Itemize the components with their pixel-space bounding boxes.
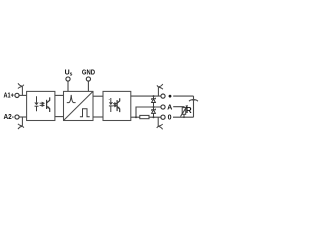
pin Us to converter bbox=[67, 81, 69, 91]
wire converter to output box (top) bbox=[93, 95, 103, 97]
stub load resistor to bottom wire bbox=[183, 114, 185, 117]
wire resistor to 0 terminal bbox=[149, 116, 161, 118]
arrow through load resistor bbox=[181, 106, 188, 117]
LED D2 bbox=[109, 98, 113, 112]
terminal A bbox=[161, 105, 165, 109]
terminal plus bbox=[161, 94, 165, 98]
wire A to load resistor bbox=[173, 106, 184, 109]
terminal A1 bbox=[15, 93, 19, 97]
disconnect hook below A2 bbox=[18, 117, 24, 129]
terminal 0 bbox=[161, 115, 165, 119]
phototransistor Q1 bbox=[47, 97, 50, 112]
junction 0 rail bbox=[153, 116, 155, 118]
wire output box to resistor line bbox=[131, 116, 140, 118]
junction top rail bbox=[153, 95, 155, 97]
zener diode Z1 bbox=[152, 96, 156, 107]
terminal GND bbox=[86, 77, 90, 81]
right vertical wire bbox=[193, 96, 195, 117]
dot label of plus terminal bbox=[169, 95, 172, 98]
svg-text:GND: GND bbox=[82, 69, 95, 76]
light arrows bbox=[113, 103, 117, 107]
disconnect hook below 0 terminal bbox=[157, 117, 163, 129]
disconnect hook above plus terminal bbox=[157, 84, 163, 96]
load resistor R bbox=[182, 108, 186, 115]
light arrows bbox=[40, 102, 44, 106]
terminal Us bbox=[66, 77, 70, 81]
svg-text:R: R bbox=[186, 106, 192, 115]
converter diagonal bbox=[64, 92, 93, 120]
spike symbol bbox=[67, 95, 76, 103]
wire input box to converter (bottom) bbox=[55, 116, 64, 118]
emitter arrow Q2 bbox=[118, 107, 120, 110]
wire converter to output box (bottom) bbox=[93, 116, 103, 118]
input optocoupler box U1 bbox=[27, 91, 55, 120]
emitter arrow Q1 bbox=[47, 106, 50, 109]
pulse converter box U2 bbox=[64, 91, 94, 120]
wire 0 to right corner bbox=[173, 116, 194, 118]
junction stub / bottom wire bbox=[183, 116, 185, 118]
output optocoupler box U3 bbox=[103, 91, 131, 120]
wire A1 to input box bbox=[19, 94, 26, 96]
square pulse symbol bbox=[80, 109, 90, 117]
svg-text:0: 0 bbox=[168, 115, 172, 122]
branch wire to A bbox=[136, 107, 161, 117]
disconnect hook above A1 bbox=[18, 83, 24, 95]
wire A2 to input box bbox=[19, 116, 26, 118]
pin GND to converter bbox=[87, 81, 89, 91]
resistor R1 bbox=[140, 115, 149, 118]
svg-text:A2-: A2- bbox=[4, 114, 15, 121]
svg-text:A: A bbox=[167, 104, 172, 111]
LED D1 bbox=[34, 96, 38, 111]
junction at branch bbox=[135, 116, 137, 118]
socket symbol on right vertical bbox=[189, 100, 198, 102]
junction A rail bbox=[153, 106, 155, 108]
wire output box to plus terminal bbox=[131, 95, 161, 97]
terminal A2 bbox=[15, 115, 19, 119]
phototransistor Q2 bbox=[117, 98, 120, 112]
svg-text:A1+: A1+ bbox=[4, 93, 14, 100]
zener diode Z2 bbox=[152, 107, 156, 117]
wire input box to converter (top) bbox=[55, 94, 64, 96]
wire plus terminal to right corner bbox=[173, 95, 193, 97]
